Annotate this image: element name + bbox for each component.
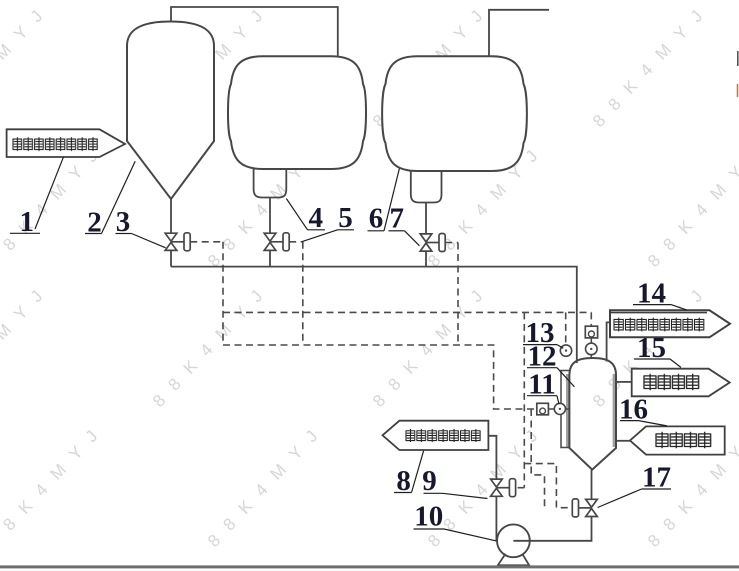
wire dashed valve9 link [518, 487, 525, 489]
wire top pipe tank1 to tank2 [171, 7, 338, 56]
leader for label 8 [394, 492, 412, 494]
tank T3 gas holder [382, 56, 527, 171]
pump P10 [497, 524, 530, 557]
svg-text:88K4MYJ: 88K4MYJ [149, 277, 275, 410]
leader for label 3 [116, 233, 132, 235]
instrument square A with inner circle [585, 326, 597, 338]
leader for label 1 [10, 232, 40, 234]
flag 1 text [12, 137, 98, 152]
tank T1 recovered-monomer hopper [127, 22, 214, 200]
wire dashed riser x531 [531, 409, 544, 508]
tank T2 bottom neck [254, 169, 287, 198]
valve V3 (tank3 outlet, labels 6/7) [420, 234, 432, 242]
svg-text:9: 9 [422, 465, 437, 497]
flag 15 hot water return [632, 369, 730, 397]
leader for label 10 [414, 528, 445, 530]
tank T3 bottom neck [411, 171, 442, 203]
wire top pipe tank3 vent [489, 10, 549, 57]
svg-text:88K4MYJ: 88K4MYJ [0, 277, 55, 410]
gauge 13 [560, 345, 571, 356]
leader for label 4 [308, 229, 326, 231]
leader for label 14 [633, 304, 671, 306]
wire flag16 nozzle [616, 440, 630, 442]
wire vessel bottom pipe [591, 470, 593, 500]
wire dashed bus upper [223, 311, 591, 313]
wire tank1 drop pipe [170, 199, 172, 233]
leader for label 9 [424, 492, 443, 494]
leader for label 17 [642, 488, 672, 490]
leader for label 7 [389, 230, 405, 232]
svg-text:7: 7 [390, 203, 405, 235]
svg-text:88K4MYJ: 88K4MYJ [0, 417, 110, 550]
right edge artifact [737, 51, 739, 66]
pump base [498, 554, 529, 566]
leader for label 11 [527, 395, 557, 397]
wire dashed valve1 branch [190, 241, 223, 243]
valve V2 (tank2 outlet, labels 4/5) [264, 233, 276, 241]
flag 16 hot water supply [630, 426, 725, 454]
svg-text:6: 6 [369, 203, 384, 235]
flag 14 vinyl chloride recovery to gas holder [610, 310, 730, 337]
wire dashed riser x524 [523, 312, 525, 487]
vessel jacket bracket left [561, 371, 569, 448]
wire dashed valve2 branch [289, 241, 303, 243]
svg-text:88K4MYJ: 88K4MYJ [204, 417, 330, 550]
wire tank2 drop pipe [269, 198, 271, 234]
leader for label 6 [368, 230, 385, 232]
wire dashed bus lower [223, 345, 537, 409]
wire dashed drop to gauge 13 [565, 312, 567, 344]
leader for label 15 [634, 358, 670, 360]
flag 8 waste lye to water-alkali wash [383, 421, 489, 450]
bottom scan bar [0, 565, 739, 568]
svg-text:88K4MYJ: 88K4MYJ [589, 0, 715, 131]
svg-text:88K4MYJ: 88K4MYJ [0, 0, 55, 131]
gauge A [590, 338, 592, 343]
wire manifold header [171, 267, 577, 363]
instrument square B with inner circle [537, 403, 549, 415]
vessel jacket gray band right [613, 374, 616, 447]
wire flag8 pipe down through valve9 [488, 436, 496, 479]
svg-text:88K4MYJ: 88K4MYJ [644, 137, 739, 270]
wire tank3 drop pipe [425, 203, 427, 235]
svg-text:10: 10 [414, 501, 443, 533]
tank T2 gas holder [228, 56, 366, 169]
wire dashed drop to instrument square A [590, 312, 592, 326]
valve V9 [491, 479, 503, 487]
wire flag14 pipe to vessel dome [607, 322, 610, 361]
svg-text:88K4MYJ: 88K4MYJ [369, 277, 495, 410]
leader for label 16 [620, 420, 639, 422]
wire dashed jog to valve17 outer [524, 464, 573, 508]
wire pump discharge [513, 516, 591, 540]
wire dashed valve3 branch [445, 242, 458, 244]
flag label: recovered monomer from polymerization [7, 129, 125, 157]
leader for label 12 [527, 367, 557, 369]
vessel U12 condenser body [569, 358, 616, 470]
leader for label 13 [523, 344, 557, 346]
gauge 11 [554, 403, 565, 414]
valve V17 [586, 499, 598, 507]
wire flag15 nozzle [616, 381, 632, 383]
vessel jacket gray band left [566, 374, 569, 447]
valve V1 (tank1 outlet, labels 2/3) [165, 233, 177, 241]
leader for label 2 [85, 233, 102, 235]
leader for label 5 [338, 229, 355, 231]
